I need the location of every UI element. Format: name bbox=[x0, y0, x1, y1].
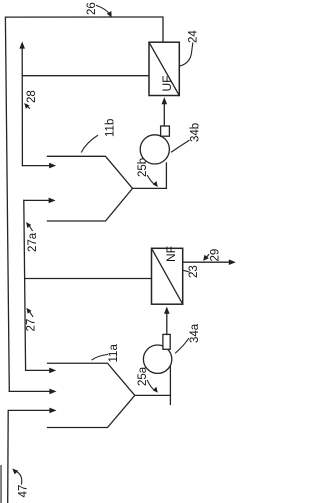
svg-text:27: 27 bbox=[26, 319, 38, 332]
svg-text:34a: 34a bbox=[189, 323, 201, 343]
tank 11a bbox=[48, 363, 135, 427]
label 27 bbox=[26, 319, 38, 332]
svg-text:34b: 34b bbox=[189, 123, 201, 142]
wire: pump 34a discharge to NF bbox=[166, 314, 168, 335]
wire: UF retentate recycle top line 26 bbox=[5, 17, 163, 391]
label 11b bbox=[105, 119, 117, 137]
label 25a bbox=[137, 366, 149, 386]
label 23 bbox=[188, 265, 200, 278]
scan edge artifact bbox=[0, 465, 1, 503]
wire: NF permeate 29 bbox=[183, 261, 229, 263]
wire: UF permeate line 28 bbox=[21, 49, 23, 166]
label 28 bbox=[26, 90, 38, 103]
wire: NF retentate line 27 / 27a bbox=[24, 200, 26, 370]
svg-text:UF: UF bbox=[160, 76, 174, 92]
wire: recycle drop into tank 11a bbox=[9, 390, 49, 392]
svg-text:47: 47 bbox=[17, 485, 29, 498]
label 34a bbox=[189, 323, 201, 343]
svg-text:NF: NF bbox=[164, 246, 178, 262]
wire: riser from NF box top bbox=[25, 278, 152, 280]
label 47 bbox=[17, 485, 29, 498]
label 29 bbox=[209, 249, 221, 262]
wire: pump 34b discharge to UF bbox=[163, 104, 165, 126]
tank 11b bbox=[47, 156, 132, 221]
membrane unit NF 23 bbox=[152, 248, 183, 304]
wire: tank 11b outlet to pump 34b bbox=[133, 187, 167, 189]
svg-text:11a: 11a bbox=[108, 344, 120, 363]
landscape drawing rotated -90deg into portrait page bbox=[0, 2, 235, 503]
svg-text:24: 24 bbox=[187, 30, 199, 43]
svg-text:23: 23 bbox=[188, 265, 200, 278]
label 34b bbox=[189, 123, 201, 142]
membrane unit UF 24 bbox=[149, 42, 179, 95]
label 25b bbox=[137, 158, 149, 177]
svg-text:27a: 27a bbox=[27, 232, 39, 252]
svg-text:26: 26 bbox=[86, 2, 98, 15]
label 11a bbox=[108, 344, 120, 363]
label 27a bbox=[27, 232, 39, 252]
svg-text:11b: 11b bbox=[105, 119, 117, 137]
pump 34b bbox=[140, 135, 169, 164]
svg-text:29: 29 bbox=[209, 249, 221, 262]
wire: feed line 47 bbox=[8, 410, 50, 503]
wire: riser from UF box top bbox=[22, 75, 149, 77]
pump 34a bbox=[143, 345, 171, 373]
svg-text:28: 28 bbox=[26, 90, 38, 103]
label 24 bbox=[187, 30, 199, 43]
label 26 bbox=[86, 2, 98, 15]
wire: tank 11a outlet to pump 34a bbox=[135, 394, 171, 396]
